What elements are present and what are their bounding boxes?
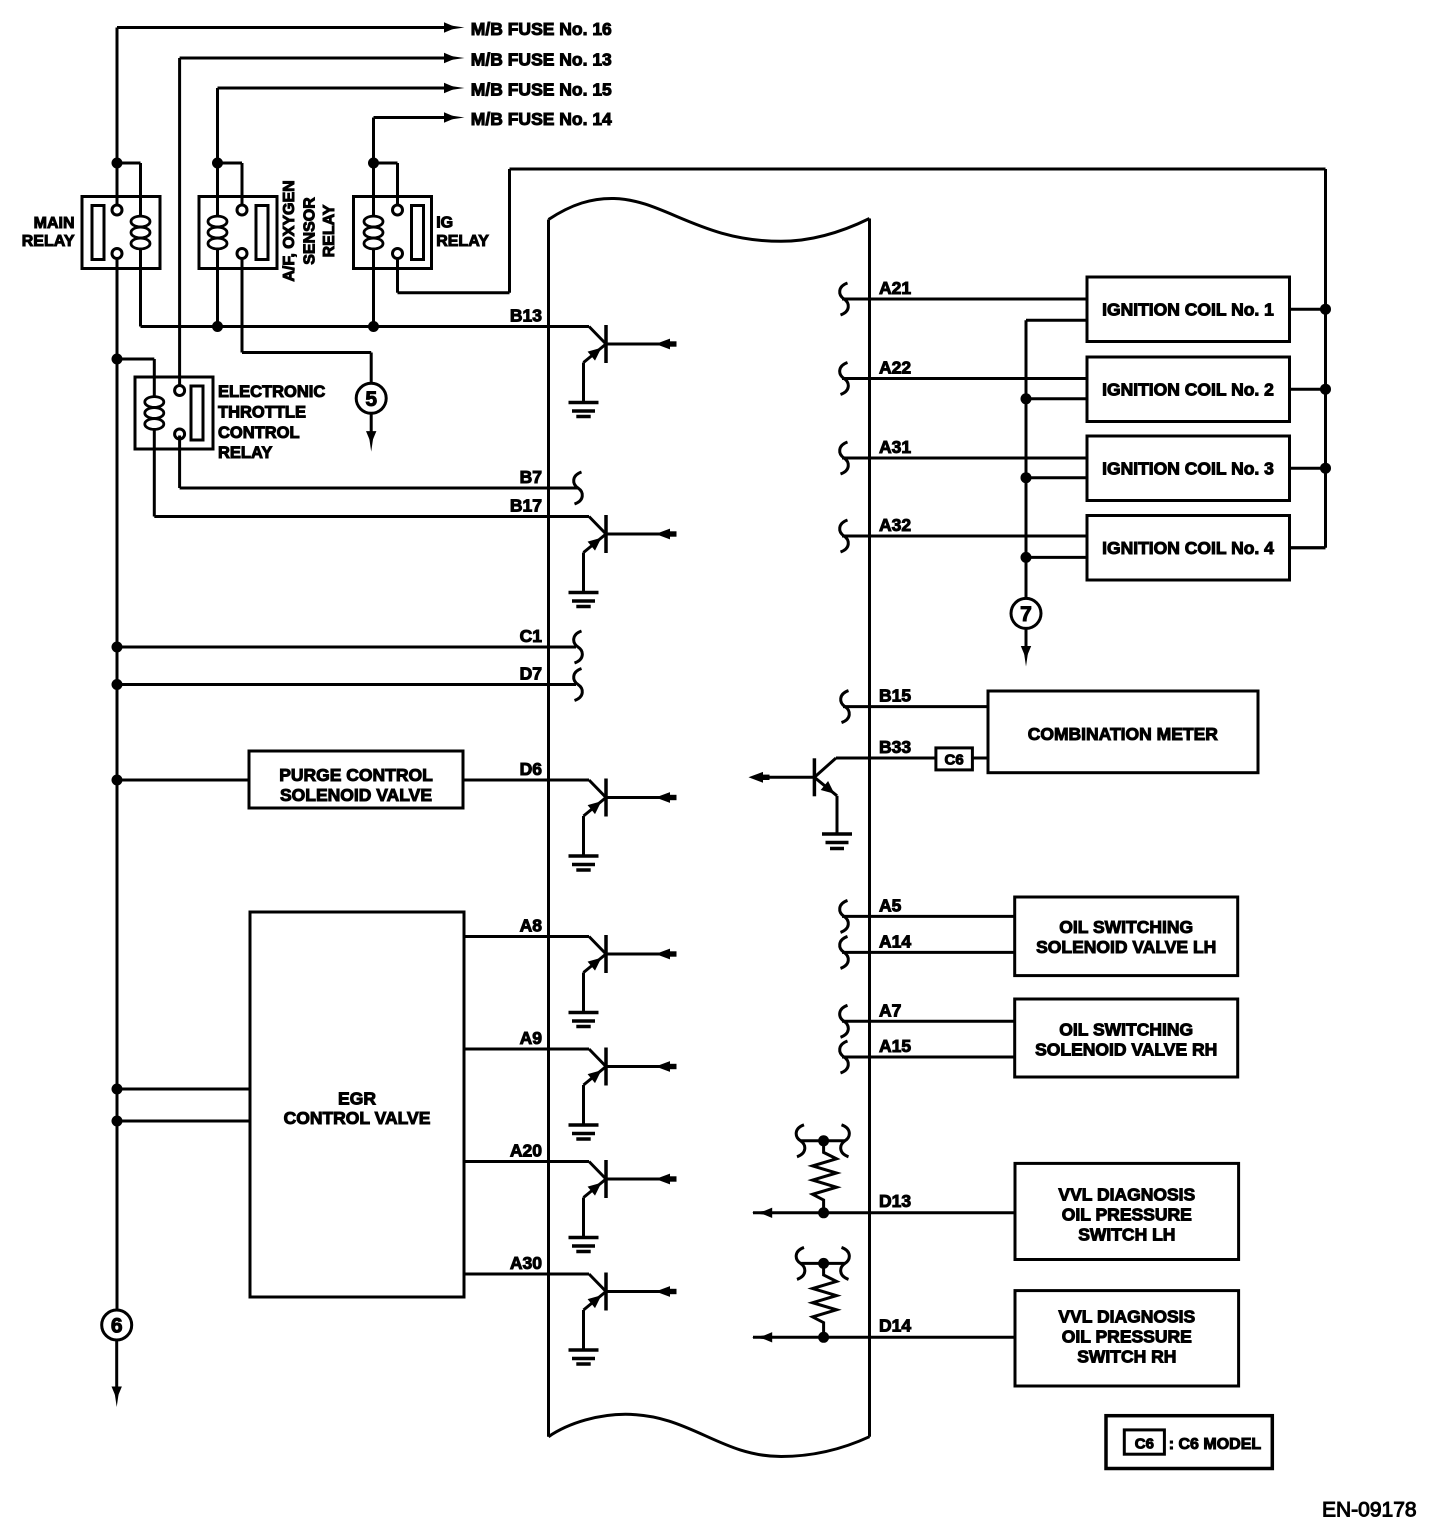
- svg-text:A14: A14: [879, 931, 911, 951]
- wire: purge valve to pin D6: [463, 779, 589, 782]
- wire: ignition coil common bus to connector 7: [1025, 320, 1028, 598]
- component box: VVL DIAGNOSIS OIL PRESSURE SWITCH RH: [1015, 1291, 1239, 1386]
- break squiggle on pin B15: [841, 691, 850, 723]
- svg-text:RELAY: RELAY: [321, 204, 338, 257]
- svg-text:A/F, OXYGEN: A/F, OXYGEN: [281, 180, 298, 281]
- svg-text:B13: B13: [510, 306, 542, 326]
- relay: IG RELAY: [354, 197, 432, 269]
- break squiggle on pin A21: [840, 283, 849, 315]
- svg-text:SWITCH RH: SWITCH RH: [1077, 1347, 1176, 1367]
- break squiggle on pin A5: [840, 900, 849, 932]
- svg-text:M/B FUSE No. 14: M/B FUSE No. 14: [471, 109, 612, 129]
- wire: ETC relay coil output to pin B17: [154, 430, 589, 517]
- svg-text:SOLENOID VALVE: SOLENOID VALVE: [280, 785, 432, 805]
- wire: EGR to pin A8: [464, 935, 589, 938]
- wire: pin D13 line with left arrow: [752, 1208, 1015, 1218]
- transistor driver for pin B33 (mirrored): [749, 758, 838, 834]
- svg-text:C6: C6: [1135, 1436, 1154, 1453]
- svg-text:SOLENOID VALVE LH: SOLENOID VALVE LH: [1036, 937, 1216, 957]
- wire: IGNITION COIL No. 1 supply lead: [1290, 308, 1326, 311]
- svg-text:RELAY: RELAY: [218, 444, 272, 462]
- svg-text:COMBINATION METER: COMBINATION METER: [1028, 724, 1219, 744]
- wire: IGNITION COIL No. 1 common lead: [1026, 319, 1087, 322]
- wire: feed to M/B FUSE No. 14: [374, 112, 465, 122]
- component box: IGNITION COIL No. 4: [1087, 516, 1290, 581]
- svg-text:IGNITION COIL No. 2: IGNITION COIL No. 2: [1102, 380, 1274, 400]
- junction node: C1 tap: [112, 642, 123, 653]
- wire: arrow below connector 5: [366, 413, 376, 451]
- wire: jog to A/F relay contact terminal: [218, 163, 243, 205]
- wire: supply 2 to EGR control valve: [117, 1120, 250, 1123]
- transistor driver for pin A8: [569, 935, 677, 1027]
- junction node: R1 bottom on D13 line: [818, 1207, 829, 1218]
- wire: pin A22 to IGNITION COIL No. 2: [842, 377, 1087, 380]
- svg-text:6: 6: [111, 1315, 123, 1338]
- svg-text:PURGE CONTROL: PURGE CONTROL: [279, 765, 433, 785]
- wire: B13 bus (relay coils to ECM pin B13): [141, 325, 590, 328]
- break squiggle on pin A32: [840, 520, 849, 552]
- label ELECTRONIC THROTTLE CONTROL RELAY: [218, 383, 325, 462]
- ECM boundary right edge: [868, 219, 871, 1437]
- wire: supply 1 to EGR control valve: [117, 1088, 250, 1091]
- svg-text:D6: D6: [520, 759, 543, 779]
- component box: OIL SWITCHING SOLENOID VALVE RH: [1015, 999, 1238, 1077]
- svg-text:A20: A20: [510, 1141, 542, 1161]
- svg-text:OIL SWITCHING: OIL SWITCHING: [1059, 917, 1193, 937]
- svg-text:A7: A7: [879, 1000, 901, 1020]
- svg-text:M/B FUSE No. 13: M/B FUSE No. 13: [471, 50, 612, 70]
- junction node: purge valve tap: [112, 775, 123, 786]
- junction node: R2 bottom on D14 line: [818, 1332, 829, 1343]
- svg-text:A32: A32: [879, 515, 911, 535]
- wire: fuse 15 vertical to A/F oxygen sensor relay: [216, 88, 219, 216]
- wire: A/F relay contact output to connector 5: [242, 259, 371, 384]
- wire: pin B15 to combination meter: [843, 705, 988, 708]
- wire: feed to M/B FUSE No. 13: [180, 53, 465, 63]
- wire: pin A15 to oil switching solenoid valve: [842, 1056, 1015, 1059]
- svg-text:OIL PRESSURE: OIL PRESSURE: [1062, 1327, 1192, 1347]
- wire: IG relay contact output to ignition coils supply: [398, 169, 1326, 548]
- svg-text:D13: D13: [879, 1191, 911, 1211]
- label IG RELAY: [436, 215, 489, 251]
- component box: OIL SWITCHING SOLENOID VALVE LH: [1015, 897, 1238, 976]
- ECM boundary wavy top: [549, 198, 870, 241]
- relay: A/F OXYGEN SENSOR RELAY: [199, 197, 277, 269]
- svg-text:5: 5: [365, 388, 377, 411]
- wire: pin A14 to oil switching solenoid valve: [842, 951, 1015, 954]
- relay: ELECTRONIC THROTTLE CONTROL RELAY: [135, 377, 213, 449]
- wire: jog to IG relay contact terminal: [374, 163, 398, 205]
- wire: ETC relay contact output to pin B7: [180, 436, 578, 489]
- wire: A/F relay coil bottom lead: [216, 249, 219, 326]
- junction node: EGR feed 2: [112, 1116, 123, 1127]
- break squiggle on pin A31: [840, 442, 849, 474]
- svg-text:C1: C1: [520, 626, 543, 646]
- wire: main relay supply vertical (fuse 16 to MAIN RELAY): [116, 28, 119, 206]
- svg-text:VVL DIAGNOSIS: VVL DIAGNOSIS: [1058, 1185, 1195, 1205]
- ECM boundary wavy bottom: [549, 1414, 870, 1456]
- wire: pin D14 line with left arrow: [752, 1332, 1015, 1342]
- junction node: fuse16/main relay coil: [112, 158, 123, 169]
- wire: pin A21 to IGNITION COIL No. 1: [842, 298, 1087, 301]
- junction node: coil3 supply: [1320, 463, 1331, 474]
- wire: jog to ETC relay coil: [117, 359, 154, 397]
- wire: IGNITION COIL No. 3 supply lead: [1290, 467, 1326, 470]
- svg-text:THROTTLE: THROTTLE: [218, 403, 306, 421]
- svg-text:IG: IG: [436, 215, 453, 232]
- wire: pin A7 to oil switching solenoid valve: [842, 1020, 1015, 1023]
- wire: fuse 14 vertical to IG relay: [372, 118, 375, 216]
- wire: pin C1 stub: [117, 646, 576, 649]
- resistor R2: [813, 1263, 837, 1335]
- svg-text:A21: A21: [879, 278, 911, 298]
- break squiggle on pin A15: [840, 1041, 849, 1073]
- svg-text:A31: A31: [879, 437, 911, 457]
- break squiggle on pin A14: [840, 936, 849, 968]
- wire: IGNITION COIL No. 3 common lead: [1026, 476, 1087, 479]
- wire: jog to MAIN RELAY coil: [117, 163, 141, 216]
- wire: feed to M/B FUSE No. 16: [117, 22, 465, 32]
- transistor driver for pin B17: [569, 515, 677, 607]
- C6 model tag on B33 wire: [936, 748, 973, 770]
- svg-text:B33: B33: [879, 737, 911, 757]
- junction node: fuse14/IG relay coil: [368, 158, 379, 169]
- break squiggle on pin B7: [574, 472, 583, 504]
- junction node: ETC relay coil tap: [112, 354, 123, 365]
- svg-text:A5: A5: [879, 895, 902, 915]
- break squiggle on pin A7: [840, 1005, 849, 1037]
- wire: IG relay coil bottom lead: [372, 249, 375, 326]
- svg-text:B15: B15: [879, 686, 911, 706]
- svg-text:ELECTRONIC: ELECTRONIC: [218, 383, 325, 401]
- junction node: D7 tap: [112, 679, 123, 690]
- wire: pull-up stub with break squiggles above resistor R2: [796, 1247, 849, 1279]
- svg-text:C6: C6: [945, 751, 964, 768]
- wire: IGNITION COIL No. 2 common lead: [1026, 397, 1087, 400]
- wire: MAIN RELAY coil output to B13 bus: [139, 249, 142, 326]
- svg-text:A8: A8: [520, 916, 543, 936]
- svg-text:MAIN: MAIN: [34, 215, 75, 232]
- junction node: EGR feed 1: [112, 1084, 123, 1095]
- svg-text:EN-09178: EN-09178: [1322, 1499, 1417, 1522]
- svg-text:7: 7: [1020, 603, 1032, 626]
- svg-text:D7: D7: [520, 664, 542, 684]
- wire: EGR to pin A9: [464, 1048, 589, 1051]
- junction node: IG relay coil on B13 bus: [368, 321, 379, 332]
- svg-text:EGR: EGR: [338, 1089, 376, 1109]
- wire: EGR to pin A20: [464, 1160, 589, 1163]
- break squiggle on pin C1: [574, 631, 583, 663]
- transistor driver for pin A30: [569, 1273, 677, 1365]
- ground below D6 driver: [0, 0, 1, 1]
- junction node: coil2 supply: [1320, 384, 1331, 395]
- svg-text:A9: A9: [520, 1028, 543, 1048]
- ground below A30 driver: [0, 0, 1, 1]
- svg-text:: C6 MODEL: : C6 MODEL: [1169, 1436, 1262, 1453]
- svg-text:IGNITION COIL No. 4: IGNITION COIL No. 4: [1102, 538, 1274, 558]
- wire: arrow below connector 6: [112, 1340, 122, 1407]
- svg-text:OIL PRESSURE: OIL PRESSURE: [1062, 1205, 1192, 1225]
- break squiggle on pin D7: [574, 669, 583, 701]
- wire: arrow below connector 7: [1021, 628, 1031, 666]
- wire: feed to M/B FUSE No. 15: [218, 83, 465, 93]
- svg-text:B7: B7: [520, 467, 542, 487]
- wire: pin A32 to IGNITION COIL No. 4: [842, 535, 1087, 538]
- wire: IGNITION COIL No. 4 supply lead: [1290, 546, 1326, 549]
- svg-text:VVL DIAGNOSIS: VVL DIAGNOSIS: [1058, 1307, 1195, 1327]
- svg-text:SWITCH LH: SWITCH LH: [1078, 1225, 1175, 1245]
- junction node: coil3 common: [1021, 472, 1032, 483]
- component box: EGR CONTROL VALVE: [250, 912, 464, 1297]
- svg-text:A22: A22: [879, 358, 911, 378]
- wire: pin A31 to IGNITION COIL No. 3: [842, 457, 1087, 460]
- transistor driver for pin D6: [569, 779, 677, 871]
- ECM boundary left edge: [547, 220, 550, 1437]
- ground below B33 driver: [822, 834, 852, 849]
- svg-text:RELAY: RELAY: [22, 233, 75, 250]
- wire: IGNITION COIL No. 2 supply lead: [1290, 388, 1326, 391]
- svg-text:B17: B17: [510, 496, 542, 516]
- transistor driver for pin A20: [569, 1160, 677, 1252]
- junction node: coil2 common: [1021, 393, 1032, 404]
- svg-text:M/B FUSE No. 16: M/B FUSE No. 16: [471, 19, 612, 39]
- svg-text:RELAY: RELAY: [436, 233, 489, 250]
- svg-text:OIL SWITCHING: OIL SWITCHING: [1059, 1020, 1193, 1040]
- connector circle 5: [356, 383, 386, 413]
- ground below A8 driver: [0, 0, 1, 1]
- connector circle 6: [102, 1310, 132, 1340]
- wire: supply to purge control solenoid valve: [117, 779, 249, 782]
- junction node: coil1 supply: [1320, 304, 1331, 315]
- relay: MAIN RELAY: [82, 197, 160, 269]
- svg-text:CONTROL: CONTROL: [218, 424, 300, 442]
- junction node: R1 top: [818, 1135, 829, 1146]
- svg-text:A15: A15: [879, 1036, 911, 1056]
- component box: VVL DIAGNOSIS OIL PRESSURE SWITCH LH: [1015, 1163, 1239, 1259]
- legend: C6 model note: [1106, 1416, 1272, 1469]
- svg-text:A30: A30: [510, 1253, 542, 1273]
- ground below A9 driver: [0, 0, 1, 1]
- svg-text:SENSOR: SENSOR: [302, 197, 319, 265]
- connector circle 7: [1011, 598, 1041, 628]
- ground below B13 driver: [0, 0, 1, 1]
- svg-text:SOLENOID VALVE RH: SOLENOID VALVE RH: [1035, 1040, 1217, 1060]
- transistor driver for pin B13: [569, 325, 677, 417]
- component box: IGNITION COIL No. 2: [1087, 357, 1290, 422]
- junction node: R2 top: [818, 1258, 829, 1269]
- component box: IGNITION COIL No. 1: [1087, 277, 1290, 342]
- component box: IGNITION COIL No. 3: [1087, 436, 1290, 501]
- label A/F, OXYGEN SENSOR RELAY (rotated): [281, 180, 338, 281]
- svg-text:IGNITION COIL No. 3: IGNITION COIL No. 3: [1102, 459, 1274, 479]
- wire: pin B33 line: [836, 757, 988, 760]
- junction node: coil4 common: [1021, 552, 1032, 563]
- resistor R1: [813, 1141, 837, 1213]
- wire: IGNITION COIL No. 4 common lead: [1026, 556, 1087, 559]
- svg-text:M/B FUSE No. 15: M/B FUSE No. 15: [471, 80, 612, 100]
- wire: EGR to pin A30: [464, 1273, 589, 1276]
- svg-text:IGNITION COIL No. 1: IGNITION COIL No. 1: [1102, 300, 1274, 320]
- wire: pin D7 stub: [117, 683, 576, 686]
- component box: PURGE CONTROL SOLENOID VALVE: [249, 751, 463, 808]
- transistor driver for pin A9: [569, 1048, 677, 1140]
- wire: fuse 13 vertical to electronic throttle control relay contact: [178, 58, 181, 387]
- junction node: fuse15/AF relay coil: [212, 158, 223, 169]
- ground below B17 driver: [0, 0, 1, 1]
- break squiggle on pin A22: [840, 363, 849, 395]
- wire: pin A5 to oil switching solenoid valve: [842, 915, 1015, 918]
- junction node: A/F relay coil on B13 bus: [212, 321, 223, 332]
- label MAIN RELAY: [22, 215, 75, 250]
- svg-text:CONTROL VALVE: CONTROL VALVE: [284, 1108, 431, 1128]
- wire: main vertical bus below MAIN RELAY: [116, 259, 119, 1311]
- ground below A20 driver: [0, 0, 1, 1]
- wire: pull-up stub with break squiggles above resistor R1: [796, 1125, 849, 1157]
- component box: COMBINATION METER: [988, 691, 1258, 773]
- svg-text:D14: D14: [879, 1315, 911, 1335]
